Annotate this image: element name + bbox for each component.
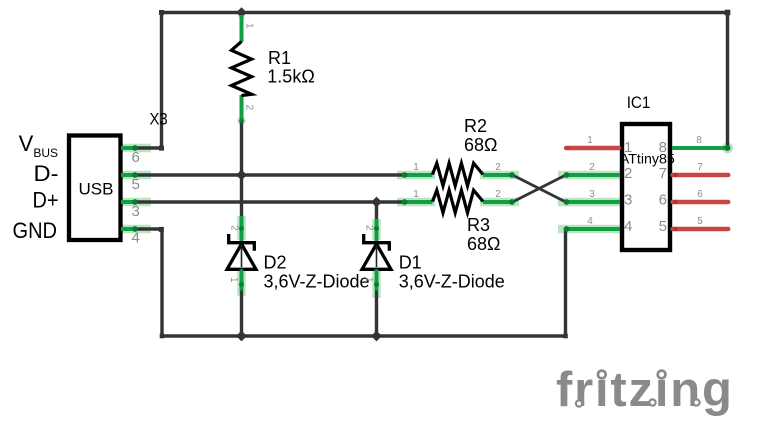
svg-text:R2: R2 [464, 116, 487, 136]
wire VBUS riser from USB pin6 [136, 13, 162, 149]
zener diode D2 [227, 216, 370, 292]
IC1 ATtiny85 body [622, 124, 670, 250]
wire IC pin4 down to bottom bus [564, 229, 567, 336]
IC1 pin 6 (red) [659, 189, 729, 209]
resistor R1 1.5k vertical [231, 15, 314, 123]
junction node D- / D2 [236, 170, 247, 181]
IC1 pin 1 (red, unconnected) [565, 135, 632, 156]
wire bottom bus [162, 334, 566, 337]
wire endpoint top-right corner [725, 10, 731, 16]
svg-text:6: 6 [132, 149, 140, 166]
svg-text:3,6V-Z-Diode: 3,6V-Z-Diode [399, 272, 505, 292]
svg-text:fritzing: fritzing [556, 363, 734, 417]
svg-text:R3: R3 [467, 215, 490, 235]
fritzing logo [556, 362, 734, 417]
svg-text:7: 7 [659, 165, 667, 182]
svg-text:8: 8 [696, 135, 702, 146]
resistor R3 68ohm horizontal [402, 189, 515, 254]
USB pin 6 [121, 145, 140, 166]
svg-text:2: 2 [589, 162, 595, 173]
svg-text:1: 1 [228, 277, 239, 283]
svg-text:D+: D+ [33, 188, 59, 213]
svg-text:4: 4 [624, 218, 632, 235]
svg-text:2: 2 [364, 225, 375, 231]
svg-text:D2: D2 [264, 252, 287, 272]
svg-text:2: 2 [495, 162, 501, 173]
wire endpoint bottom-left [160, 334, 165, 339]
wire D2 bottom to bottom bus [240, 289, 243, 336]
IC1 pin 2 (green) [564, 162, 633, 182]
wire D- line USB pin5 to R2 [136, 173, 404, 176]
svg-text:1: 1 [624, 139, 632, 156]
svg-text:1: 1 [413, 189, 419, 200]
svg-text:1.5kΩ: 1.5kΩ [267, 66, 314, 86]
USB pin 4 [121, 226, 140, 246]
wire D+ line USB pin3 to R3 [136, 200, 404, 203]
svg-text:3: 3 [589, 189, 595, 200]
svg-text:3: 3 [132, 203, 140, 220]
USB pin 3 [121, 199, 140, 220]
wire R2 output cross down to IC pin3 [513, 175, 566, 202]
wire right drop to IC pin8 [726, 13, 729, 149]
junction node on top bus at R1 [236, 7, 247, 18]
IC1 pin 4 (green) [564, 216, 633, 235]
wire D- junction to D2 top [240, 175, 243, 218]
svg-text:7: 7 [697, 162, 703, 173]
IC1 pin 7 (red) [659, 162, 729, 182]
IC1 pin 3 (green) [564, 189, 633, 209]
pin connection highlight glow layer [120, 148, 621, 298]
svg-text:IC1: IC1 [627, 94, 651, 112]
wire bendpoint at USB pin6 corner [159, 146, 164, 151]
IC1 pin 8 (green, to top bus) [659, 135, 731, 156]
wire D+ junction to D1 top [375, 202, 378, 221]
junction node D2 bottom [236, 331, 247, 342]
wire GND from USB pin4 down [136, 229, 162, 336]
svg-text:1: 1 [363, 277, 374, 283]
svg-text:4: 4 [587, 216, 593, 227]
svg-text:2: 2 [495, 189, 501, 200]
svg-text:R1: R1 [268, 48, 291, 68]
svg-text:D-: D- [34, 161, 59, 186]
wire endpoint top-left corner [159, 10, 164, 15]
svg-text:2: 2 [624, 165, 632, 182]
svg-text:2: 2 [244, 105, 255, 111]
svg-text:8: 8 [659, 139, 667, 156]
svg-text:1: 1 [244, 23, 255, 29]
svg-text:6: 6 [659, 192, 667, 209]
wire R3 output cross up to IC pin2 [513, 175, 566, 202]
svg-text:D1: D1 [399, 252, 422, 272]
svg-text:USB: USB [79, 180, 114, 199]
wire endpoint bottom-right [563, 334, 568, 339]
wire R1 bottom to D- junction [240, 121, 243, 175]
svg-text:X3: X3 [150, 110, 168, 129]
svg-text:68Ω: 68Ω [467, 234, 500, 254]
svg-text:1: 1 [413, 162, 419, 173]
svg-text:4: 4 [132, 230, 140, 247]
svg-text:1: 1 [587, 135, 593, 146]
svg-text:5: 5 [659, 218, 667, 235]
junction node D1 bottom [371, 331, 382, 342]
svg-text:5: 5 [132, 176, 140, 193]
svg-text:GND: GND [13, 218, 58, 243]
IC1 pin 5 (red) [659, 216, 729, 235]
svg-text:5: 5 [697, 216, 703, 227]
svg-text:68Ω: 68Ω [464, 135, 497, 155]
USB connector X3 body [69, 136, 121, 241]
svg-text:3,6V-Z-Diode: 3,6V-Z-Diode [264, 272, 370, 292]
junction node D+ / D1 [371, 197, 382, 208]
svg-text:3: 3 [624, 192, 632, 209]
zener diode D1 [362, 219, 505, 292]
wire bendpoint at GND corner [159, 227, 164, 232]
svg-text:6: 6 [697, 189, 703, 200]
resistor R2 68ohm horizontal [402, 116, 515, 186]
wire top bus [162, 11, 728, 14]
USB pin 5 [121, 172, 140, 193]
svg-text:2: 2 [229, 225, 240, 231]
wire D1 bottom to bottom bus [375, 289, 378, 336]
